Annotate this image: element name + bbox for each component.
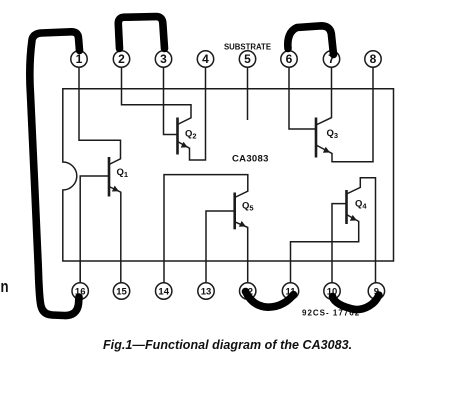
svg-text:3: 3 bbox=[160, 52, 167, 66]
svg-text:15: 15 bbox=[116, 286, 127, 297]
svg-text:SUBSTRATE: SUBSTRATE bbox=[224, 42, 271, 51]
svg-text:5: 5 bbox=[244, 52, 251, 66]
svg-text:Fig.1—Functional diagram of th: Fig.1—Functional diagram of the CA3083. bbox=[103, 338, 352, 352]
svg-text:1: 1 bbox=[76, 52, 83, 66]
svg-text:8: 8 bbox=[370, 52, 377, 66]
svg-text:13: 13 bbox=[201, 286, 212, 297]
svg-text:4: 4 bbox=[202, 52, 209, 66]
svg-text:n: n bbox=[1, 278, 9, 297]
svg-text:2: 2 bbox=[118, 52, 125, 66]
svg-text:14: 14 bbox=[158, 286, 169, 297]
svg-text:CA3083: CA3083 bbox=[232, 154, 269, 165]
svg-text:6: 6 bbox=[286, 52, 293, 66]
